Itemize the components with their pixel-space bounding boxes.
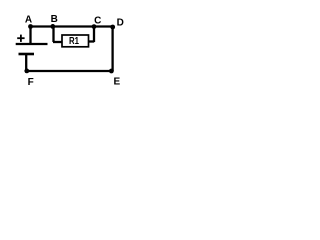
svg-text:R1: R1 [69, 36, 79, 47]
svg-text:F: F [28, 77, 34, 88]
svg-text:B: B [51, 14, 58, 25]
svg-text:E: E [113, 76, 120, 87]
svg-text:C: C [94, 15, 101, 26]
svg-text:D: D [117, 17, 124, 28]
svg-text:A: A [25, 14, 32, 25]
